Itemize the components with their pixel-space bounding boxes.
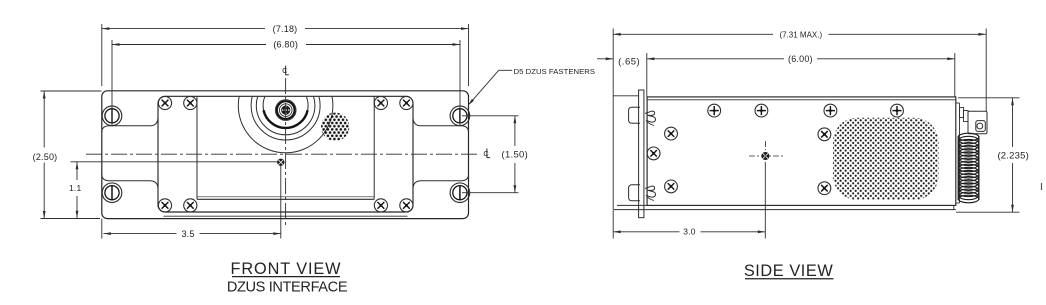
svg-text:C: C	[282, 66, 287, 75]
svg-text:(7.31 MAX.): (7.31 MAX.)	[779, 30, 822, 39]
svg-text:3.0: 3.0	[683, 227, 695, 237]
DZUS fastener top-left	[102, 106, 122, 126]
svg-text:SIDE VIEW: SIDE VIEW	[744, 262, 834, 280]
dimension (6.00)	[647, 53, 955, 97]
svg-text:(1.50): (1.50)	[502, 148, 529, 159]
dimension (.65)	[597, 57, 640, 68]
DZUS stud head top (side)	[629, 107, 640, 123]
dimension (7.18)	[102, 24, 469, 86]
rear connector bracket	[956, 103, 960, 203]
fastener pocket bottom-right	[413, 175, 469, 190]
fastener pocket top-right	[413, 117, 469, 132]
dimension (7.31 MAX.)	[613, 29, 986, 239]
plate screw 1	[158, 96, 171, 109]
side screw left b	[647, 147, 660, 160]
plate screw 5	[158, 199, 171, 212]
coiled cable bundle	[958, 133, 979, 203]
side screw left c	[665, 180, 678, 193]
horizontal centerline	[86, 153, 480, 155]
plate screw 3	[374, 96, 387, 109]
recessed face right edge	[373, 96, 375, 199]
centerline symbol above connector	[282, 66, 289, 76]
fastener pocket top-left	[102, 117, 158, 132]
svg-text:(2.50): (2.50)	[33, 152, 58, 162]
DZUS receptacle clip bottom	[645, 186, 656, 200]
side screw row1 a	[708, 104, 721, 117]
front view DZUS panel outline	[102, 91, 469, 219]
plate screw 6	[184, 199, 197, 212]
svg-text:(6.00): (6.00)	[788, 54, 813, 64]
side screw right a	[818, 128, 831, 141]
side screw left a	[665, 127, 678, 140]
index pin screw below connector	[277, 159, 284, 166]
DZUS fastener bottom-right	[450, 183, 470, 203]
dimension (2.50)	[33, 91, 102, 219]
svg-text:DZUS INTERFACE: DZUS INTERFACE	[227, 279, 348, 295]
side screw row1 d	[891, 104, 904, 117]
dimension (1.50)	[462, 116, 528, 193]
side screw row1 c	[824, 104, 837, 117]
side title underline	[745, 278, 834, 280]
side speaker grille	[833, 118, 939, 200]
DZUS receptacle clip top	[645, 111, 656, 125]
dimension 3.5	[102, 166, 281, 239]
plate bottom chamfer line	[164, 215, 408, 217]
recessed face bottom edge	[197, 197, 374, 200]
svg-text:1.1: 1.1	[69, 183, 81, 193]
speaker grille (front)	[321, 113, 349, 141]
DZUS stud head bottom (side)	[629, 185, 640, 201]
chassis bottom flange	[614, 205, 956, 209]
dimension 1.1	[69, 162, 277, 218]
connector bezel arcs (clipped at plate top)	[238, 58, 333, 153]
svg-text:C: C	[483, 149, 488, 158]
vertical centerline through connector	[285, 78, 287, 227]
plate screw 7	[374, 199, 387, 212]
mounting plate outline	[158, 96, 413, 212]
stray tick mark right edge	[1041, 183, 1043, 190]
dimension (2.235)	[956, 98, 1029, 212]
svg-text:D5 DZUS FASTENERS: D5 DZUS FASTENERS	[514, 67, 596, 76]
plate screw 4	[400, 96, 413, 109]
side screw row1 b	[755, 104, 768, 117]
DZUS fastener top-right	[450, 106, 470, 126]
datum screw with center mark	[749, 141, 783, 160]
svg-text:FRONT VIEW: FRONT VIEW	[231, 260, 342, 278]
fastener pocket bottom-left	[102, 175, 158, 190]
svg-text:(7.18): (7.18)	[273, 24, 298, 34]
plate screw 8	[400, 199, 413, 212]
dimension (6.80)	[112, 40, 460, 125]
front panel slab (edge view)	[613, 90, 644, 218]
svg-text:3.5: 3.5	[181, 229, 194, 239]
rear connector body	[960, 108, 988, 134]
plate screw 2	[184, 96, 197, 109]
recessed face left edge	[196, 96, 198, 199]
dimension 3.0	[613, 162, 765, 239]
svg-text:(6.80): (6.80)	[273, 40, 298, 50]
side screw right b	[818, 182, 831, 195]
leader D5 DZUS FASTENERS	[468, 67, 595, 106]
svg-text:(.65): (.65)	[618, 57, 640, 68]
DZUS fastener bottom-left	[102, 183, 122, 203]
svg-text:(2.235): (2.235)	[997, 150, 1029, 161]
connector U1 rings	[275, 100, 296, 121]
title underline	[232, 276, 340, 278]
centerline symbol right	[483, 148, 490, 158]
side chassis box	[647, 97, 956, 205]
